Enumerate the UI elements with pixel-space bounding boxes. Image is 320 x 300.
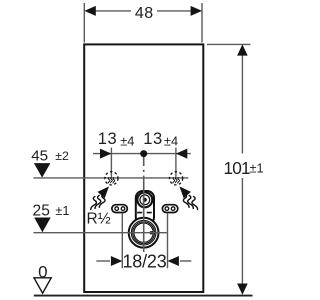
svg-text:25: 25 (33, 203, 51, 220)
svg-text:±4: ±4 (164, 133, 178, 148)
svg-text:±2: ±2 (55, 149, 69, 163)
svg-text:18/23: 18/23 (122, 252, 166, 272)
svg-text:13: 13 (143, 130, 163, 148)
svg-text:48: 48 (135, 5, 154, 22)
svg-text:R½: R½ (87, 211, 111, 228)
svg-text:±1: ±1 (55, 203, 69, 218)
svg-text:101: 101 (224, 158, 251, 178)
svg-text:45: 45 (31, 147, 48, 164)
svg-text:13: 13 (98, 130, 118, 148)
svg-text:±4: ±4 (120, 133, 134, 148)
svg-text:±1: ±1 (250, 161, 264, 176)
